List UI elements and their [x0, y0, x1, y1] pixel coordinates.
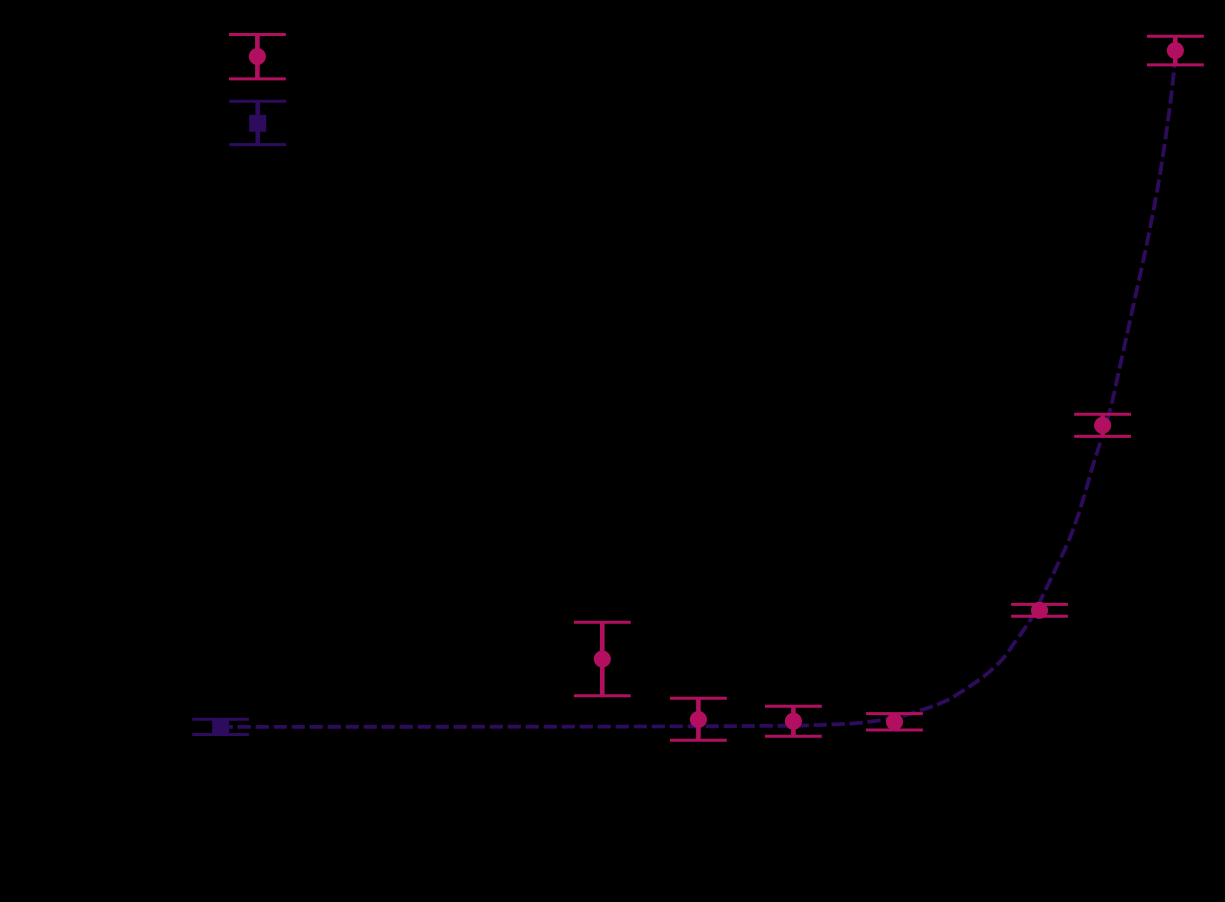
point L1 (top-left circle) errorbar: [229, 33, 286, 36]
point A errorbar: [574, 621, 631, 624]
point L2 (top-left square) marker: [249, 115, 266, 132]
point G marker: [1167, 42, 1184, 59]
point A marker: [594, 650, 611, 667]
dashed exponential fit curve: [220, 48, 1176, 727]
point E marker: [1031, 602, 1048, 619]
point D marker: [886, 713, 903, 730]
point F marker: [1094, 417, 1111, 434]
point B errorbar: [670, 697, 727, 700]
point S1 marker: [212, 718, 229, 735]
point G errorbar: [1147, 35, 1204, 38]
point E errorbar: [1011, 603, 1068, 606]
point C marker: [785, 713, 802, 730]
point C errorbar: [765, 705, 822, 708]
point D errorbar: [866, 712, 923, 715]
point F errorbar: [1074, 413, 1131, 416]
point L1 (top-left circle) marker: [249, 48, 266, 65]
point S1 errorbar: [192, 718, 249, 721]
point L2 (top-left square) errorbar: [229, 100, 286, 103]
point B marker: [690, 711, 707, 728]
